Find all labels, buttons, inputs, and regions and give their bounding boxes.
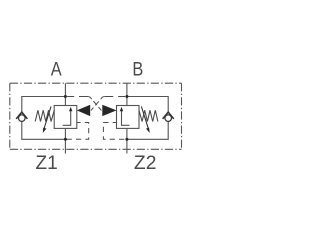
svg-text:Z2: Z2: [134, 153, 157, 174]
svg-text:Z1: Z1: [36, 153, 58, 174]
svg-text:B: B: [132, 58, 143, 79]
svg-text:A: A: [51, 58, 62, 79]
